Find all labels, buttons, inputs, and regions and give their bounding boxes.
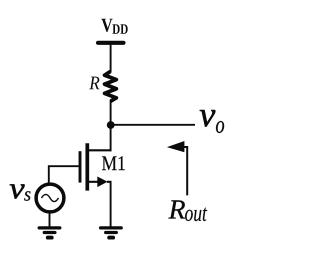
corner source lead to ground wire — [107, 181, 112, 183]
wire node down to drain of M1 — [110, 125, 112, 151]
source label vs (s subscript) — [24, 191, 30, 200]
transistor M1 drain lead — [88, 149, 112, 151]
resistor R zigzag — [105, 71, 117, 101]
wire resistor to node — [110, 100, 112, 125]
output node label vo (v) — [200, 110, 216, 127]
supply label VDD (DD subscript) — [112, 24, 127, 33]
supply label VDD (V) — [101, 19, 112, 32]
transistor M1 gate wire — [49, 166, 79, 182]
resistor value label R — [89, 77, 99, 90]
wire node to output terminal — [111, 124, 195, 126]
Rout label (R) — [168, 200, 185, 218]
Rout looking-in arrow shaft — [184, 147, 187, 195]
Rout arrowhead — [167, 141, 185, 152]
sine wave inside vs — [42, 194, 59, 201]
output node label vo (o subscript) — [216, 121, 224, 133]
wire VDD bar to resistor — [110, 43, 112, 72]
transistor M1 gate bar — [79, 151, 82, 182]
transistor M1 channel bar — [85, 143, 89, 190]
transistor M1 source arrowhead — [97, 177, 107, 188]
wire M1 source down to ground — [110, 182, 112, 227]
signal source vs circle — [36, 184, 64, 212]
transistor M1 source lead — [88, 181, 103, 183]
transistor label M1 — [102, 156, 125, 170]
VDD supply bar — [98, 41, 124, 45]
output node junction dot — [107, 121, 115, 129]
ground symbol at M1 source — [101, 228, 122, 238]
source label vs (v) — [10, 184, 25, 198]
wire vs bottom to ground — [49, 212, 51, 227]
Rout label (out subscript) — [185, 208, 207, 222]
ground symbol at vs — [39, 228, 60, 238]
